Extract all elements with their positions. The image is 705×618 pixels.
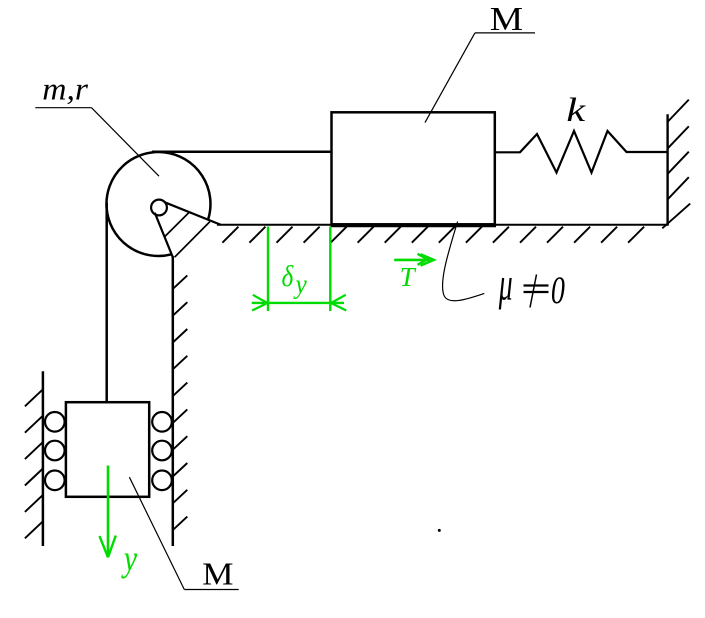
svg-text:δ: δ — [282, 259, 295, 292]
svg-text:M: M — [490, 0, 523, 38]
roller R2 — [152, 441, 172, 461]
rope horizontal — [152, 150, 332, 153]
ground line — [217, 224, 669, 226]
green dimension right extension line — [329, 227, 331, 312]
not-equal slash — [530, 275, 537, 308]
roller L2 — [45, 441, 65, 461]
block M bottom thick edge — [331, 224, 497, 228]
green y arrow line — [107, 466, 110, 557]
green dimension line — [252, 302, 344, 304]
svg-text:m,r: m,r — [42, 72, 88, 107]
pulley bracket lower arm — [155, 213, 173, 257]
left wall hatching — [25, 389, 43, 538]
roller R1 — [152, 412, 172, 432]
dot — [438, 529, 441, 532]
right wall hatching — [668, 100, 689, 200]
green dimension left extension line — [267, 227, 269, 312]
label M top leader — [425, 33, 475, 123]
green T arrow — [394, 259, 430, 262]
right wall — [666, 114, 668, 224]
roller R3 — [152, 471, 172, 491]
label m,r leader — [92, 108, 160, 177]
svg-text:k: k — [566, 92, 586, 129]
not-equal bars — [524, 284, 549, 286]
svg-text:T: T — [400, 262, 417, 292]
lower right wall hatching — [173, 275, 188, 530]
label M bottom underline — [184, 589, 238, 591]
green T arrowhead — [418, 254, 434, 266]
lower right wall — [172, 256, 175, 546]
label M top underline — [475, 32, 535, 34]
label mu leader hook — [443, 222, 485, 301]
ground hatching — [222, 227, 644, 243]
label M bottom leader — [129, 477, 184, 589]
svg-text:y: y — [121, 539, 137, 579]
rope vertical — [105, 203, 108, 402]
roller L3 — [45, 471, 65, 491]
label m,r underline — [35, 107, 91, 109]
roller L1 — [45, 412, 65, 432]
left wall — [42, 371, 45, 546]
pulley m,r — [106, 152, 210, 256]
pulley bracket upper arm — [165, 202, 221, 225]
pulley bracket hypotenuse — [175, 222, 210, 258]
green dim arrow left — [252, 295, 267, 311]
svg-text:M: M — [202, 557, 233, 592]
svg-text:y: y — [293, 268, 307, 299]
bracket hatch — [165, 213, 189, 237]
svg-text:μ: μ — [498, 259, 513, 310]
hanging block M — [66, 402, 149, 497]
green y arrowhead — [100, 536, 116, 558]
ground-wall corner hatch — [662, 204, 690, 229]
pulley axle — [151, 200, 167, 216]
green dim arrow right — [331, 295, 346, 311]
spring k — [495, 131, 667, 173]
block M (upper) — [332, 112, 495, 224]
svg-text:0: 0 — [551, 270, 565, 312]
